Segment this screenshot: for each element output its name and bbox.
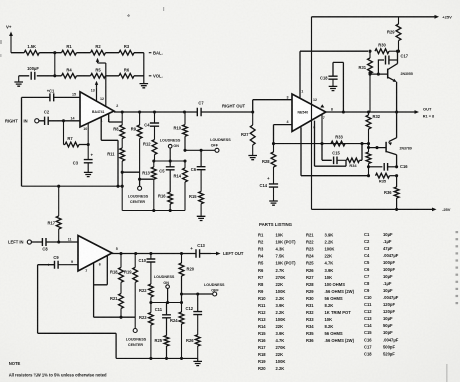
wire top bias row	[11, 52, 144, 54]
resistor R1	[62, 44, 77, 55]
switch LOUDNESS ON left	[154, 275, 175, 303]
wire junction bias to vol	[53, 53, 56, 78]
resistor R25	[154, 318, 168, 359]
wire feedback bottom	[22, 185, 123, 188]
wire C9 to pin9	[58, 264, 78, 266]
node OUT	[415, 107, 435, 119]
wire C1 feedback left	[22, 97, 81, 186]
resistor R6	[119, 67, 134, 78]
ground at C3	[84, 169, 93, 177]
wire pin6 path	[94, 256, 108, 285]
capacitor C8	[42, 238, 48, 251]
resistor 1.5K	[24, 44, 39, 55]
wire pin13 drop	[96, 85, 98, 102]
wire pin2 path	[109, 114, 123, 122]
wire R31 column	[369, 51, 371, 58]
ground at VOL	[140, 84, 149, 88]
resistor R20	[179, 254, 195, 303]
wire +25V rail	[312, 14, 453, 19]
resistor R35 column	[366, 148, 371, 178]
resistor R31	[358, 58, 372, 112]
resistor R23	[139, 303, 153, 359]
resistor R24	[170, 303, 184, 359]
resistor R14	[173, 161, 187, 211]
capacitor C4	[144, 112, 159, 127]
wire left loudness off	[182, 292, 213, 295]
resistor R29	[387, 17, 401, 51]
resistor R12	[143, 126, 157, 161]
resistor R4	[62, 67, 77, 78]
capacitor C6	[191, 150, 206, 172]
wire left output line	[112, 252, 211, 255]
wire loudness off	[185, 149, 215, 152]
wiper line R2 to pin 12	[105, 63, 107, 107]
parts listing table	[258, 222, 399, 371]
wire pin7 path	[94, 263, 136, 319]
ground at 100uF	[14, 76, 23, 86]
wire pin1 path	[101, 117, 118, 186]
resistor R30	[375, 42, 400, 53]
wire pin9 drop	[301, 127, 369, 176]
potentiometer R2	[91, 44, 106, 55]
resistor R8	[113, 112, 124, 139]
resistor R19	[124, 254, 138, 318]
switch LOUDNESS ON	[160, 138, 181, 161]
wire left-in to pin11	[31, 240, 78, 243]
resistor R27	[241, 112, 255, 156]
capacitor C17	[378, 53, 408, 74]
resistor R32	[366, 112, 381, 149]
capacitor C13	[190, 243, 205, 258]
capacitor C9	[47, 255, 59, 269]
capacitor C14	[259, 167, 278, 201]
capacitor C15	[322, 144, 346, 165]
wire loudness row	[152, 159, 186, 162]
node A bias junction	[53, 51, 56, 54]
resistor R36	[384, 176, 399, 210]
node RIGHT OUT	[222, 104, 254, 114]
wire C9 feedback loop	[38, 265, 117, 359]
resistor R3	[119, 44, 134, 55]
resistor R34	[347, 144, 363, 168]
wire feedback row R33	[272, 142, 370, 145]
wire out line	[326, 110, 415, 113]
wire pin10 drop	[87, 123, 90, 146]
wiper of R2	[96, 58, 106, 63]
ground at C18	[329, 84, 338, 90]
transistor Q2 2N3789	[369, 112, 412, 167]
resistor R11	[107, 139, 124, 211]
capacitor C3	[73, 145, 94, 170]
wire rail to pin12	[311, 17, 313, 210]
ground at R15	[197, 216, 206, 220]
wire pin1 up	[300, 50, 372, 98]
op-amp U2 BA4741	[68, 236, 118, 273]
wire center tap rows	[122, 172, 154, 186]
node RIGHT IN terminal	[5, 118, 39, 123]
resistor R28	[262, 144, 276, 167]
transistor Q1 2N3055	[368, 50, 412, 112]
capacitor C7	[197, 101, 204, 117]
resistor R7	[64, 136, 89, 147]
node LOUDNESS OFF	[210, 138, 231, 153]
wiper of R5	[95, 81, 98, 102]
capacitor C18 supply	[320, 62, 343, 112]
wire right-in to pin14	[39, 119, 80, 122]
node LOUDNESS OFF left	[204, 283, 225, 296]
resistor R9	[131, 112, 142, 179]
capacitor C16	[367, 163, 408, 171]
capacitor C12	[185, 294, 202, 315]
resistor R15	[189, 170, 204, 217]
resistor R35	[376, 173, 399, 183]
capacitor C5	[159, 161, 174, 173]
wire to pin3	[253, 100, 292, 112]
wire input to R7	[63, 121, 65, 145]
wire pin4 path	[274, 125, 293, 144]
capacitor 100uF	[27, 66, 39, 80]
wire pin-neg supply drop	[0, 0, 1, 1]
wire bal-vol drop	[143, 53, 145, 84]
node VOL terminal	[149, 74, 163, 79]
capacitor C10	[138, 254, 155, 263]
wire left bottom rail	[116, 357, 198, 360]
resistor R13	[142, 161, 156, 211]
wire -25V rail	[312, 207, 451, 212]
resistor R16	[158, 170, 173, 210]
node BAL terminal	[149, 50, 163, 55]
wire right output line	[114, 110, 253, 113]
op-amp U3 NE540	[287, 90, 333, 132]
resistor R26	[186, 315, 200, 359]
wire pin7 drop	[321, 114, 323, 144]
resistor R10	[173, 112, 187, 152]
ground at R27	[248, 156, 257, 160]
node LOUDNESS CENTER left	[126, 317, 147, 347]
op-amp U1 BA4741	[71, 88, 119, 130]
capacitor C1	[47, 88, 55, 101]
ground at C14	[269, 201, 278, 205]
resistor R21	[110, 282, 123, 317]
wire right bottom rail	[122, 209, 185, 212]
wire pin8 drop	[315, 121, 347, 167]
node LEFT IN terminal	[8, 240, 32, 245]
note text	[9, 361, 107, 378]
resistor R18	[110, 254, 123, 283]
ground at left rail	[193, 358, 202, 365]
node LEFT OUT	[211, 251, 244, 256]
node LOUDNESS CENTER	[128, 186, 149, 204]
power V+ terminal	[6, 25, 13, 53]
resistor R17	[47, 186, 61, 242]
capacitor C2	[44, 110, 50, 125]
resistor R22	[139, 262, 153, 303]
wire left loudness row	[149, 301, 183, 304]
potentiometer R5	[91, 67, 106, 78]
wire vol row	[19, 75, 144, 77]
resistor R33	[331, 135, 345, 146]
capacitor C11	[155, 303, 171, 318]
